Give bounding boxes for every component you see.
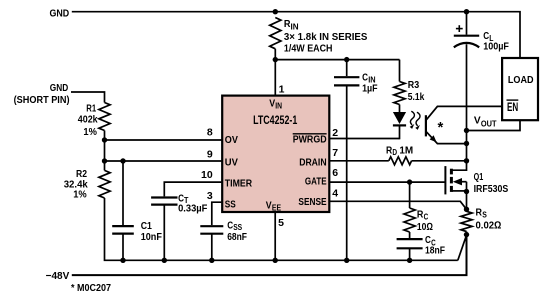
junction RS bottom [464, 232, 469, 237]
junction GATE / RC branch [407, 179, 412, 184]
svg-text:OV: OV [225, 134, 238, 146]
svg-text:0.33µF: 0.33µF [178, 203, 208, 215]
svg-text:1: 1 [279, 84, 285, 96]
junction SENSE / RS top [464, 207, 469, 212]
wire OV pin 8 [105, 139, 223, 141]
wire R3 top lead [399, 60, 401, 82]
capacitor CSS [200, 225, 223, 227]
wire DRAIN pin 7 left part [330, 160, 389, 162]
svg-text:100µF: 100µF [483, 40, 509, 52]
svg-text:GND: GND [50, 82, 69, 94]
wire TIMER pin 10 [164, 182, 222, 196]
junction CIN / VEE line [344, 258, 349, 263]
wire LOAD bottom pin [467, 120, 521, 130]
load box [502, 58, 538, 120]
wire SS pin 3 [212, 202, 222, 225]
resistor RC [404, 208, 415, 232]
junction CL top / GND rail [464, 9, 469, 14]
wire -48V rail [72, 235, 467, 276]
wire GATE pin 6 [330, 181, 445, 183]
svg-text:IN: IN [291, 22, 299, 31]
svg-text:EE: EE [272, 203, 281, 212]
junction opto emitter / rail [464, 141, 469, 146]
junction DRAIN / rail [464, 158, 469, 163]
svg-text:6: 6 [332, 167, 338, 179]
svg-text:18nF: 18nF [425, 245, 445, 257]
svg-text:10: 10 [201, 169, 213, 181]
svg-text:V: V [474, 114, 481, 126]
svg-text:Q1: Q1 [474, 171, 484, 183]
resistor RIN [270, 18, 281, 49]
transistor Q1 body arrow [453, 178, 462, 185]
svg-text:9: 9 [207, 149, 213, 161]
resistor RS [461, 211, 472, 231]
svg-text:68nF: 68nF [227, 231, 247, 243]
junction Q1 source [464, 189, 469, 194]
junction RIN top / GND rail [273, 9, 278, 14]
transistor Q1 gate bar [444, 166, 446, 194]
svg-text:PWRGD: PWRGD [293, 134, 327, 146]
junction CSS / VEE line [209, 258, 214, 263]
svg-text:−48V: −48V [46, 270, 70, 282]
svg-text:0.02Ω: 0.02Ω [476, 219, 502, 231]
opto phototransistor base bar [425, 115, 427, 136]
svg-text:IRF530S: IRF530S [474, 183, 509, 195]
wire pin 1 lead [274, 60, 276, 96]
svg-text:IN: IN [275, 101, 282, 110]
wire GATE to RC [409, 182, 411, 208]
wire RIN bottom lead [274, 49, 276, 60]
opto collector [426, 106, 502, 120]
wire R1-R2 link [104, 140, 106, 170]
svg-text:3× 1.8k IN SERIES: 3× 1.8k IN SERIES [284, 31, 368, 43]
transistor Q1 channel segments [450, 169, 453, 175]
svg-text:V: V [266, 199, 272, 211]
wire VEE kelvin diagonal [458, 235, 467, 260]
svg-text:LOAD: LOAD [508, 74, 534, 86]
junction C1 / VEE line [120, 258, 125, 263]
svg-text:10Ω: 10Ω [417, 221, 433, 233]
wire VEE pin 5 [274, 212, 276, 260]
opto light arrow 2 [416, 112, 420, 126]
svg-text:10nF: 10nF [141, 231, 163, 243]
svg-text:S: S [482, 211, 487, 220]
wire LED cathode to PWRGD [399, 125, 401, 139]
svg-text:8: 8 [207, 127, 213, 139]
svg-text:OUT: OUT [481, 119, 497, 128]
wire PWRGD pin 2 [330, 138, 400, 140]
capacitor CL [454, 35, 479, 37]
opto emitter [426, 131, 467, 143]
svg-text:2: 2 [332, 127, 338, 139]
svg-text:1%: 1% [73, 189, 87, 201]
svg-text:SENSE: SENSE [298, 196, 326, 208]
wire right rail upper [466, 12, 468, 35]
node VIN junction [273, 57, 278, 62]
capacitor CT [151, 196, 177, 198]
svg-text:* M0C207: * M0C207 [71, 282, 111, 294]
svg-text:TIMER: TIMER [225, 178, 253, 190]
LED opto diode [399, 105, 401, 113]
svg-text:UV: UV [225, 156, 238, 168]
junction CT / VEE line [162, 258, 167, 263]
svg-text:D: D [392, 148, 397, 157]
svg-text:GATE: GATE [305, 176, 327, 188]
capacitor C1 [122, 161, 124, 226]
wire SENSE pin 4 [330, 201, 467, 209]
svg-text:3: 3 [207, 190, 213, 202]
resistor R3 [394, 82, 405, 105]
resistor RD [389, 157, 412, 165]
svg-text:5: 5 [278, 217, 284, 229]
svg-text:EN: EN [507, 102, 518, 114]
svg-text:R3: R3 [408, 79, 420, 91]
resistor R2 [99, 170, 110, 198]
svg-text:LTC4252-1: LTC4252-1 [253, 113, 297, 127]
junction CC / VEE line [407, 258, 412, 263]
svg-text:R1: R1 [86, 102, 96, 114]
svg-text:1M: 1M [399, 145, 413, 157]
svg-text:402k: 402k [78, 114, 98, 126]
svg-text:1µF: 1µF [362, 83, 378, 95]
wire GND short pin [71, 92, 105, 103]
svg-text:4: 4 [332, 187, 338, 199]
svg-text:7: 7 [332, 147, 338, 159]
junction R1/R2 OV [102, 137, 107, 142]
svg-text:*: * [438, 119, 444, 136]
svg-text:SS: SS [225, 198, 236, 210]
wire DRAIN pin 7 right part [412, 160, 467, 162]
svg-text:DRAIN: DRAIN [299, 156, 326, 168]
transistor Q1 source lead [451, 190, 466, 192]
transistor Q1 drain lead [451, 161, 466, 170]
junction pin5 / VEE line [273, 258, 278, 263]
node VOUT [464, 128, 469, 133]
wire VIN node horizontal [275, 59, 399, 61]
svg-text:GND: GND [50, 8, 70, 20]
svg-text:1%: 1% [83, 126, 97, 138]
opto light arrow 1 [410, 111, 414, 125]
junction CIN top [344, 57, 349, 62]
resistor R1 [99, 103, 110, 131]
wire R2 bottom to VEE line [105, 198, 458, 260]
junction UV / divider [102, 158, 107, 163]
svg-text:1/4W EACH: 1/4W EACH [284, 43, 333, 55]
svg-text:(SHORT PIN): (SHORT PIN) [14, 94, 70, 106]
junction UV / C1 [120, 158, 125, 163]
capacitor CIN [346, 60, 348, 77]
capacitor CC [409, 232, 411, 239]
op-amp U1 LTC4252-1 body [222, 96, 329, 212]
wire GND top rail [72, 12, 520, 58]
capacitor CL plus sign [456, 28, 463, 30]
svg-text:5.1k: 5.1k [408, 91, 425, 103]
wire UV pin 9 [105, 160, 223, 162]
